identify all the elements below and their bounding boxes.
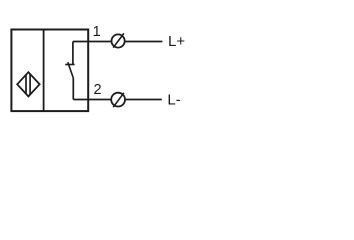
switch blade xyxy=(68,62,74,78)
diamond right bar xyxy=(29,74,31,94)
wire pin 2 to L- xyxy=(73,99,162,101)
svg-text:2: 2 xyxy=(94,82,102,98)
svg-text:1: 1 xyxy=(93,24,101,40)
switch bottom stub xyxy=(72,78,74,100)
switch fixed contact tick xyxy=(65,64,74,66)
terminal 1 (screw clamp) xyxy=(112,33,125,47)
diamond left bar xyxy=(25,75,27,94)
terminal 2 (screw clamp) xyxy=(111,93,125,108)
inductive proximity sensor symbol (diamond) xyxy=(17,72,39,96)
svg-text:L+: L+ xyxy=(168,33,185,50)
switch top stub xyxy=(72,42,74,65)
sensor body outline xyxy=(11,30,88,112)
sensor body divider xyxy=(43,30,45,112)
wire pin 1 to L+ xyxy=(73,41,162,43)
svg-text:L-: L- xyxy=(167,92,180,109)
